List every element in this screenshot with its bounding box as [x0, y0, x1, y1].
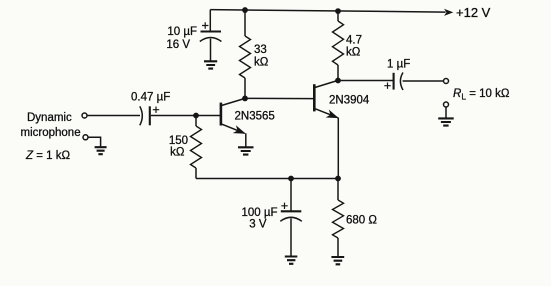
ground for 10uF — [204, 61, 217, 68]
node junction emitter-680-rail — [335, 176, 341, 182]
node base junction — [193, 113, 199, 119]
svg-text:microphone: microphone — [21, 127, 81, 139]
wire Q2 emitter down to rail — [337, 118, 340, 179]
node junction 4.7k-to-rail — [335, 8, 341, 14]
wire 1uF to output terminal — [403, 80, 444, 82]
resistor 150k zigzag — [191, 126, 202, 168]
wire 0.47uF to base node — [151, 115, 196, 117]
wire bottom rail — [196, 178, 338, 180]
wire rail down to 680 — [337, 179, 339, 201]
capacitor 1uF straight plate — [393, 73, 395, 90]
svg-text:680 Ω: 680 Ω — [346, 215, 377, 227]
wire output return to ground — [445, 107, 447, 118]
ground for input return — [95, 147, 107, 154]
node Q1 collector junction — [242, 96, 248, 102]
svg-text:kΩ: kΩ — [346, 47, 361, 59]
capacitor 10uF top plate — [201, 30, 222, 32]
wire 680 to ground — [337, 238, 339, 257]
wire rail to 33k — [244, 10, 246, 36]
capacitor 10uF plus sign — [202, 22, 208, 28]
capacitor 0.47uF curved plate — [140, 106, 143, 125]
wire +12V supply rail — [210, 10, 445, 13]
wire input terminal to 0.47uF — [87, 115, 140, 117]
capacitor 100uF top plate — [281, 210, 302, 212]
svg-text:0.47 µF: 0.47 µF — [131, 91, 170, 103]
svg-text:RL = 10 kΩ: RL = 10 kΩ — [453, 88, 510, 102]
ground for 100uF — [285, 257, 298, 264]
wire return terminal to ground — [88, 137, 100, 147]
svg-text:Z = 1 kΩ: Z = 1 kΩ — [25, 150, 70, 162]
svg-text:150: 150 — [169, 135, 188, 147]
capacitor 0.47uF straight plate — [149, 106, 151, 125]
wire 150k to bottom rail — [195, 168, 197, 179]
wire 100uF to ground — [290, 218, 292, 256]
svg-text:1 µF: 1 µF — [387, 59, 410, 71]
wire Q2 collector to 1uF — [338, 80, 393, 82]
wire 33k to collector node — [244, 78, 246, 98]
transistor Q1 2N3565 base bar — [220, 103, 223, 126]
svg-text:16 V: 16 V — [166, 39, 190, 51]
svg-text:kΩ: kΩ — [170, 147, 185, 159]
output terminal hot — [444, 79, 449, 84]
ground for Q1 emitter — [238, 147, 254, 154]
wire Q1 emitter to ground — [245, 133, 247, 147]
transistor Q2 2N3904 base bar — [313, 84, 316, 111]
output terminal return — [444, 102, 449, 107]
node junction 100uF-to-rail — [288, 176, 294, 182]
svg-text:10 µF: 10 µF — [167, 26, 197, 38]
capacitor 100uF plus sign — [281, 203, 287, 209]
transistor Q2 collector lead — [315, 80, 338, 87]
resistor 4.7k zigzag — [333, 21, 344, 65]
wire rail down to 10uF — [209, 10, 211, 31]
capacitor 1uF curved plate — [400, 73, 403, 91]
svg-text:2N3904: 2N3904 — [329, 95, 370, 107]
wire rail down to 4.7k — [337, 11, 339, 21]
transistor Q1 collector lead — [222, 98, 245, 105]
svg-text:4.7: 4.7 — [346, 35, 362, 47]
ground for output — [438, 118, 454, 125]
svg-text:2N3565: 2N3565 — [235, 111, 275, 123]
svg-text:3 V: 3 V — [249, 219, 267, 231]
svg-text:kΩ: kΩ — [254, 57, 269, 69]
input terminal return — [83, 135, 88, 140]
wire rail down to 100uF — [290, 179, 292, 212]
capacitor 0.47uF plus sign — [153, 107, 159, 113]
svg-text:Dynamic: Dynamic — [27, 112, 72, 124]
capacitor 1uF plus sign — [384, 83, 390, 89]
+12V arrowhead — [444, 9, 453, 16]
wire base node down to 150k — [195, 116, 197, 127]
svg-text:100 µF: 100 µF — [241, 207, 277, 219]
wire collector node to Q2 base — [245, 97, 314, 99]
resistor 680 zigzag — [333, 200, 344, 238]
transistor Q2 emitter lead with arrow — [315, 109, 337, 118]
ground for 680 — [331, 257, 344, 264]
wire base node to Q1 base — [196, 115, 221, 117]
capacitor 10uF curved plate — [200, 38, 222, 42]
node junction 33k-to-rail — [242, 7, 248, 13]
transistor Q1 emitter lead with arrow — [222, 124, 245, 133]
input terminal hot — [82, 113, 87, 118]
resistor 33k zigzag — [240, 36, 251, 78]
wire 10uF to ground — [210, 39, 212, 62]
wire 4.7k to Q2 collector node — [337, 65, 339, 81]
capacitor 100uF curved plate — [280, 217, 302, 221]
svg-text:33: 33 — [254, 44, 267, 56]
node Q2 collector junction — [335, 78, 341, 84]
svg-text:+12 V: +12 V — [456, 5, 491, 20]
